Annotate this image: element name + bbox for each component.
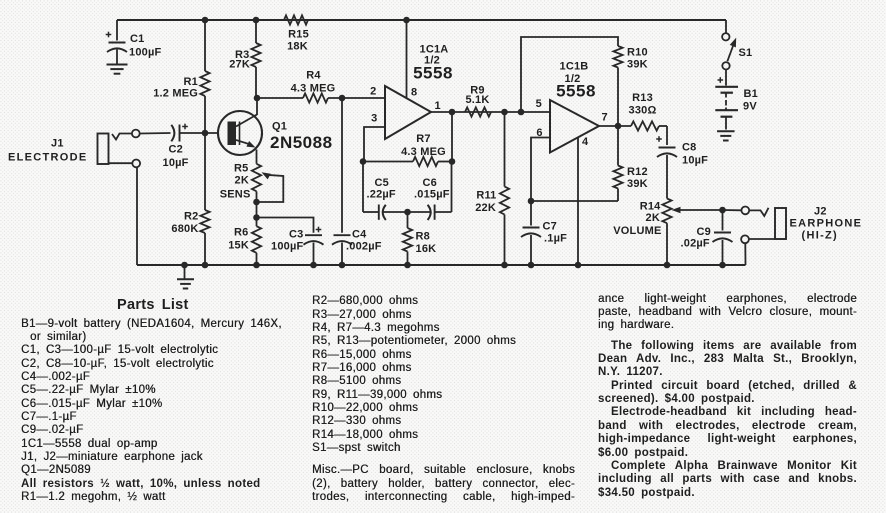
wire emitter stem [256, 191, 258, 226]
svg-text:(HI-Z): (HI-Z) [802, 230, 839, 242]
node collector/R3/R4 [254, 95, 261, 102]
wire rail to S1 [725, 20, 727, 33]
svg-text:15K: 15K [228, 240, 249, 252]
svg-text:C4: C4 [352, 229, 367, 241]
wire J1 sleeve to ground rail [136, 167, 138, 265]
pin 8 wire [403, 17, 417, 99]
label 1C1B 1/2 5558 [556, 61, 596, 101]
svg-text:R7: R7 [416, 133, 430, 145]
svg-text:4.3 MEG: 4.3 MEG [401, 146, 446, 158]
connector J1 [98, 130, 141, 168]
svg-text:5558: 5558 [556, 82, 596, 101]
svg-text:C2: C2 [169, 144, 183, 156]
node output/R7 [449, 158, 456, 165]
resistor R3 [229, 17, 260, 98]
label J2 EARPHONE (HI-Z) [790, 206, 863, 242]
wire collector to R4 [257, 97, 303, 99]
svg-text:R15: R15 [288, 29, 309, 41]
wire Q1 emitter down [256, 150, 258, 164]
wire top supply rail [117, 19, 726, 21]
svg-text:C1: C1 [130, 33, 144, 45]
wire wiper to J2 [723, 209, 742, 211]
svg-text:5558: 5558 [413, 64, 453, 83]
svg-text:4.3 MEG: 4.3 MEG [291, 83, 336, 95]
svg-text:R11: R11 [476, 190, 496, 202]
capacitor C9 [681, 210, 733, 268]
resistor R7 [363, 133, 452, 166]
svg-text:.002µF: .002µF [346, 241, 382, 253]
svg-text:.1µF: .1µF [544, 233, 567, 245]
capacitor C1 [106, 20, 127, 64]
connector J2 [741, 207, 786, 266]
wire R4 to op-amp pin 2 [328, 97, 385, 99]
node C5/C6/R8 [404, 209, 411, 216]
label J1 ELECTRODE [8, 138, 88, 164]
svg-text:330Ω: 330Ω [629, 105, 657, 117]
resistor R1 [153, 17, 209, 133]
node C7 [528, 198, 535, 205]
capacitor C2 [163, 124, 189, 169]
svg-text:C8: C8 [682, 142, 696, 154]
svg-text:C9: C9 [697, 226, 711, 238]
svg-text:R4: R4 [306, 70, 321, 82]
svg-text:5: 5 [536, 98, 542, 110]
svg-text:ELECTRODE: ELECTRODE [8, 152, 88, 164]
svg-text:S1: S1 [739, 47, 753, 59]
node wiper/C9 [719, 207, 726, 214]
svg-text:2K: 2K [646, 212, 660, 224]
ground on bottom rail [177, 262, 194, 289]
wire bottom ground rail [137, 264, 746, 266]
switch S1 [722, 33, 752, 69]
svg-text:2N5088: 2N5088 [270, 133, 333, 152]
svg-text:R1: R1 [184, 76, 198, 88]
svg-text:4: 4 [582, 136, 589, 148]
svg-text:9V: 9V [743, 101, 757, 113]
resistor R9 [465, 85, 491, 117]
node R9/R11 [501, 109, 508, 116]
svg-text:C7: C7 [543, 221, 557, 233]
svg-text:16K: 16K [416, 243, 437, 255]
svg-text:10µF: 10µF [163, 157, 189, 169]
resistor R6 [228, 226, 261, 268]
potentiometer R14 [613, 199, 722, 269]
node R4/C4 [339, 95, 346, 102]
svg-text:100µF: 100µF [271, 241, 303, 253]
svg-text:Q1: Q1 [272, 121, 287, 133]
label Q1 2N5088 [270, 121, 333, 153]
svg-text:.02µF: .02µF [681, 238, 710, 250]
svg-text:R13: R13 [632, 92, 653, 104]
svg-text:100µF: 100µF [129, 47, 161, 59]
svg-text:1C1B: 1C1B [560, 61, 589, 73]
svg-text:22K: 22K [475, 202, 496, 214]
wire to C3 [257, 218, 314, 233]
capacitor C3 [271, 227, 324, 269]
svg-text:1: 1 [435, 100, 441, 112]
svg-text:.015µF: .015µF [414, 189, 450, 201]
resistor R8 [403, 212, 436, 268]
svg-text:C6: C6 [423, 177, 437, 189]
pin 6 [531, 127, 550, 201]
pin 3 [364, 113, 385, 162]
svg-text:R2: R2 [184, 211, 198, 223]
svg-text:10µF: 10µF [682, 155, 708, 167]
svg-text:8: 8 [411, 87, 417, 99]
node base/R1/R2 [202, 130, 209, 137]
battery B1 [715, 70, 758, 130]
svg-text:C5: C5 [375, 177, 389, 189]
node pin7/R10/R12 [615, 123, 622, 130]
svg-text:2K: 2K [235, 175, 249, 187]
svg-text:39K: 39K [627, 178, 648, 190]
wire pin6/C7/R12 [531, 200, 618, 202]
svg-text:18K: 18K [287, 41, 308, 53]
op-amp U1 A [385, 86, 431, 139]
resistor R11 [475, 112, 509, 268]
svg-text:EARPHONE: EARPHONE [790, 218, 863, 230]
svg-text:VOLUME: VOLUME [613, 225, 661, 237]
svg-text:27K: 27K [229, 59, 250, 71]
ground below B1 [717, 131, 735, 140]
svg-text:3: 3 [371, 113, 377, 125]
op-amp U1 B [550, 100, 599, 153]
capacitor C6 [408, 177, 452, 220]
pin 4 wire [575, 136, 589, 268]
svg-text:J2: J2 [814, 206, 827, 218]
capacitor C8 [656, 126, 708, 199]
wire loop left [362, 162, 364, 213]
wire loop right [451, 162, 453, 213]
pin 1 output [431, 100, 550, 112]
resistor R13 [629, 92, 667, 131]
transistor Q1 [218, 111, 262, 155]
resistor R4 [291, 70, 336, 103]
capacitor C4 [332, 229, 382, 269]
svg-text:5.1K: 5.1K [465, 94, 489, 106]
svg-text:R6: R6 [234, 227, 248, 239]
wire C2 to Q1 base [180, 132, 219, 134]
capacitor C7 [521, 201, 567, 268]
wire loop to R10 [521, 37, 618, 112]
svg-text:2: 2 [370, 86, 376, 98]
svg-text:R14: R14 [640, 201, 661, 213]
svg-text:B1: B1 [744, 88, 758, 100]
svg-text:7: 7 [602, 112, 608, 124]
svg-text:R12: R12 [627, 166, 648, 178]
resistor R12 [613, 126, 647, 201]
wire pin7 to R13 [599, 125, 631, 127]
wire node to C4 [341, 98, 343, 233]
svg-text:J1: J1 [51, 138, 64, 150]
label C1 [129, 33, 161, 59]
resistor R10 [613, 46, 647, 126]
resistor R2 [171, 133, 209, 268]
svg-text:.22µF: .22µF [367, 189, 396, 201]
svg-text:6: 6 [536, 127, 542, 139]
svg-text:1.2 MEG: 1.2 MEG [153, 88, 198, 100]
wire Q1 collector up [256, 98, 258, 115]
potentiometer R5 [220, 163, 284, 206]
svg-text:SENS: SENS [220, 189, 251, 201]
svg-text:R8: R8 [416, 231, 430, 243]
node pin3/R7 [360, 158, 367, 165]
node emitter/C3 tap [253, 214, 260, 221]
label 1C1A 1/2 5558 [413, 44, 453, 83]
resistor R15 [284, 15, 309, 52]
ground below C1 [107, 65, 128, 74]
svg-text:R10: R10 [627, 47, 648, 59]
capacitor C5 [363, 177, 408, 220]
wire output down to R7 [449, 109, 456, 116]
svg-text:39K: 39K [627, 59, 648, 71]
node pin5/loop [518, 109, 525, 116]
svg-text:680K: 680K [171, 223, 198, 235]
svg-text:R5: R5 [234, 163, 248, 175]
wire J1 tip to C2 [140, 132, 171, 135]
svg-text:C3: C3 [289, 229, 303, 241]
